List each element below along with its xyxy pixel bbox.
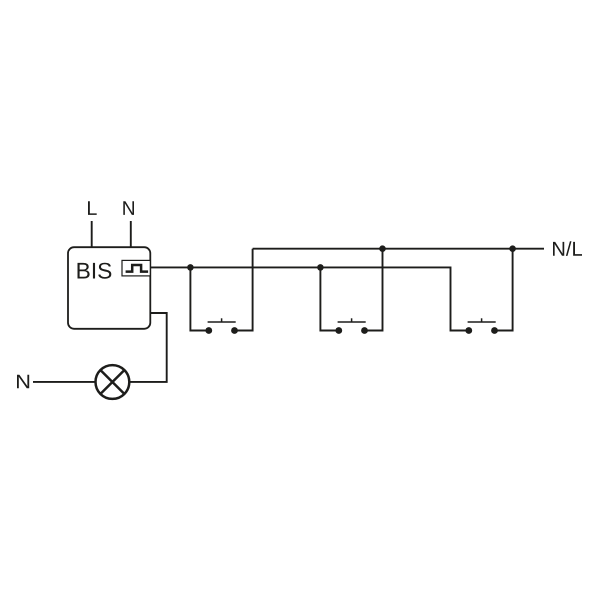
pushbutton S3 (momentary NO) bbox=[465, 318, 498, 334]
wire N terminal into U1 bbox=[130, 221, 132, 248]
wire: N feed to lamp E1 bbox=[33, 381, 96, 383]
wire L terminal into U1 bbox=[91, 221, 93, 248]
pushbutton S2 (momentary NO) bbox=[335, 318, 368, 334]
label L (terminal of U1) bbox=[88, 201, 97, 215]
label N/L bbox=[553, 241, 582, 256]
pulse waveform symbol bbox=[126, 265, 149, 272]
node junction dot on upper rail (branch to S3) bbox=[509, 245, 516, 252]
node junction dot on lower rail (branch to S2) bbox=[317, 264, 324, 271]
pushbutton S1 (momentary NO) bbox=[205, 318, 238, 334]
wire: pushbutton S1 right contact up to upper rail bbox=[237, 249, 253, 331]
lamp E1 bbox=[96, 365, 130, 399]
wire: N/L upper supply rail bbox=[253, 248, 544, 250]
impulse relay module U1 (BIS) box bbox=[68, 247, 150, 329]
wire: U1 switched output down to lamp E1 bbox=[130, 313, 167, 382]
label N (neutral feed) bbox=[17, 375, 29, 389]
pulse-output symbol frame on U1 bbox=[122, 260, 150, 276]
wire: pushbutton S2 right contact up to upper rail bbox=[367, 249, 383, 331]
wire: lower rail branch down to pushbutton S1 left contact bbox=[190, 267, 206, 330]
node junction dot on lower rail (branch to S1) bbox=[187, 264, 194, 271]
node junction dot on upper rail (branch to S2) bbox=[379, 245, 386, 252]
wire: pushbutton S3 right contact up to upper rail bbox=[497, 249, 513, 331]
label BIS bbox=[78, 263, 112, 279]
wire: U1 pulse output lower rail to pushbutton S3 left contact bbox=[150, 267, 466, 330]
label N (terminal of U1) bbox=[123, 201, 134, 215]
wire: lower rail branch down to pushbutton S2 left contact bbox=[320, 267, 336, 330]
